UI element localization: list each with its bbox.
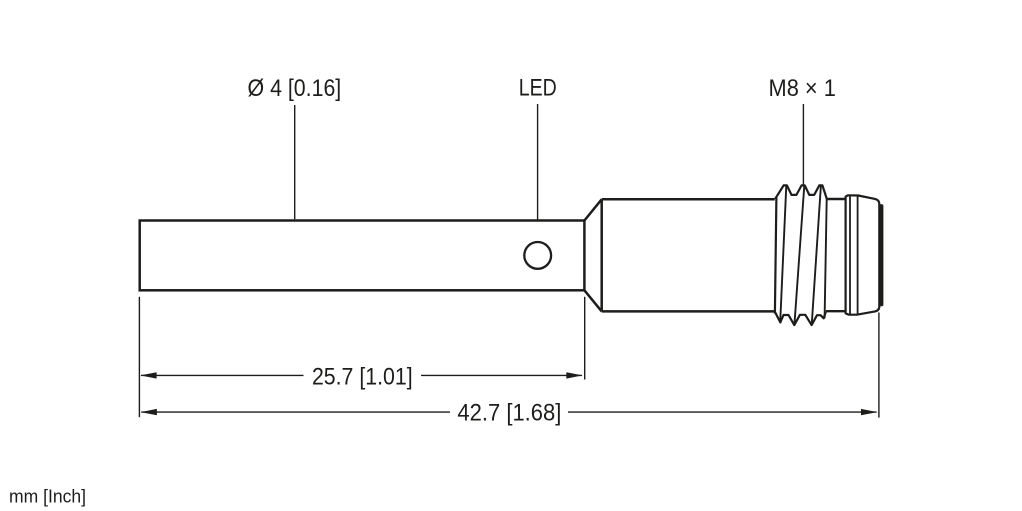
thread flank line 1 bbox=[780, 186, 786, 323]
connector cap outline bbox=[846, 195, 880, 314]
leader line for Ø 4 bbox=[294, 105, 296, 219]
svg-text:42.7 [1.68]: 42.7 [1.68] bbox=[457, 399, 561, 426]
arrowhead 42.7 left bbox=[141, 409, 157, 415]
leader line for M8 x 1 bbox=[802, 104, 804, 186]
extension line left bbox=[138, 297, 140, 417]
connector cap groove line 2 bbox=[857, 196, 859, 315]
svg-text:M8 × 1: M8 × 1 bbox=[769, 75, 836, 102]
thread flank line 2 bbox=[794, 186, 804, 325]
svg-text:Ø 4 [0.16]: Ø 4 [0.16] bbox=[248, 75, 342, 102]
arrowhead 25.7 right bbox=[566, 372, 582, 378]
thread top crest profile bbox=[775, 185, 827, 199]
extension line at step bbox=[584, 297, 586, 380]
leader line for LED bbox=[537, 104, 539, 242]
thread bottom crest profile bbox=[775, 311, 826, 325]
dimension line 25.7 right segment bbox=[421, 374, 582, 376]
barrel (sensing tube) bbox=[140, 221, 585, 291]
body cylinder bbox=[602, 199, 775, 311]
arrowhead 25.7 left bbox=[140, 372, 156, 378]
thread runout cylinder bbox=[826, 199, 846, 311]
dimension line 42.7 left segment bbox=[141, 411, 450, 413]
extension line right bbox=[878, 313, 880, 418]
dimension line 25.7 left segment bbox=[141, 374, 304, 376]
cone step barrel to body bbox=[584, 199, 601, 311]
connector cap groove line 1 bbox=[849, 196, 851, 315]
LED window circle bbox=[524, 242, 551, 269]
svg-text:LED: LED bbox=[519, 74, 557, 101]
thread start edge bbox=[775, 197, 777, 313]
svg-text:25.7 [1.01]: 25.7 [1.01] bbox=[312, 364, 413, 391]
thread end edge bbox=[825, 199, 827, 318]
connector face dark band bbox=[879, 204, 883, 306]
svg-text:mm [Inch]: mm [Inch] bbox=[9, 486, 86, 506]
thread flank line 3 bbox=[812, 186, 821, 325]
arrowhead 42.7 right bbox=[861, 409, 877, 415]
dimension line 42.7 right segment bbox=[568, 411, 877, 413]
